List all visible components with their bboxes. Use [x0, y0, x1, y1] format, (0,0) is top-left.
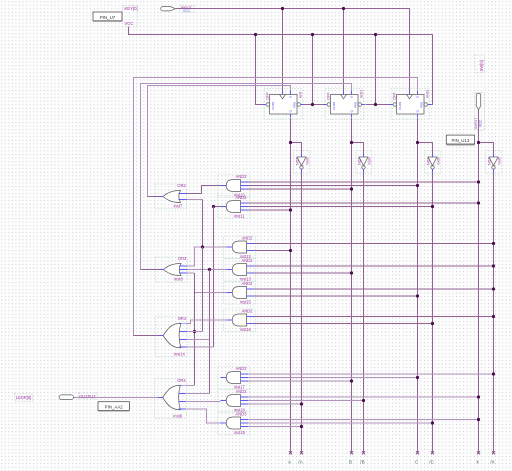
svg-text:X: X [476, 460, 479, 465]
wire AND2 inst16 input 2 to node /C [254, 323, 433, 325]
wire AND2 inst12 input 2 to node A [254, 250, 291, 252]
wire AND2 inst16 input 1 to node /X [254, 316, 494, 318]
wire AND3 inst19 input 2 to node /C [248, 422, 432, 424]
wire OR4 inst9 input 4 jog to AND3 inst19 output [187, 409, 221, 423]
OR3 gate inst8 [163, 264, 181, 276]
selection box around OUTPUT label [78, 393, 97, 399]
svg-text:/X: /X [490, 460, 494, 465]
wire OR4 inst9 input 2 from vertical V3 [187, 393, 210, 395]
svg-text:PRN: PRN [419, 102, 423, 108]
wire OR4 inst9 output to output pin LEDR[0] [74, 397, 159, 399]
wire vertical V1 minterm feed up to OR3 input 3 [186, 272, 194, 274]
wire branch to NOT inst5 [418, 143, 433, 154]
wire /B column from NOT inst4 [363, 172, 365, 452]
junction AND3 inst10 in3 on B [350, 187, 353, 190]
wire OR4 inst9 input 1 from vertical V1 [187, 385, 195, 387]
svg-text:inst9: inst9 [173, 413, 182, 418]
svg-text:inst19: inst19 [234, 430, 246, 435]
svg-text:VCC: VCC [124, 21, 133, 26]
wire AND3 inst10 input 3 to node B [248, 188, 351, 190]
svg-text:CLRN: CLRN [271, 102, 275, 110]
svg-text:PRN: PRN [292, 102, 296, 108]
junction AND2 inst16 in1 on /X [492, 315, 495, 318]
inverter NOT gate inst5 [428, 157, 437, 166]
wire AND3 inst17 input 2 to node C [248, 377, 417, 379]
junction AND2 inst13 in1 on /X [492, 264, 495, 267]
svg-text:DFF: DFF [392, 92, 396, 100]
input pin KEY[0] symbol tag [161, 7, 176, 11]
junction AND2 inst13 output branch to V3 [208, 268, 211, 271]
svg-text:NOT: NOT [358, 157, 362, 165]
AND2 gate inst13 [232, 264, 246, 276]
wire AND2 inst13 input 2 to node B [254, 272, 352, 274]
wire OR4 inst14 input 4 to vertical V4 [187, 346, 214, 348]
wire KEY[0] net from pin to preset/clear rail [129, 27, 433, 105]
svg-text:DFF: DFF [326, 92, 330, 100]
wire AND3 inst11 input 3 to node A [248, 209, 290, 211]
junction AND3 inst19 in1 on X [477, 418, 480, 421]
wire KEY[0] branch to node between inst1 and inst2 [375, 35, 377, 105]
svg-text:PIN_AA2: PIN_AA2 [105, 405, 124, 410]
wire AND3 inst10 output to OR2 input 1 [186, 186, 220, 194]
junction AND3 inst18 in1 on X [477, 395, 480, 398]
wire OR2 input 2 jog to vertical V2 [186, 199, 202, 201]
wire AND2 inst13 input 1 to node /X [254, 265, 494, 267]
pin assignment box PIN_U7 [93, 12, 122, 21]
junction on rail between inst1 and inst2 [374, 103, 377, 106]
inverter NOT gate inst3 [297, 157, 306, 166]
wire AND3 inst11 output to vertical V4 [214, 206, 221, 208]
junction V1 at OR4 inst14 input 2 [193, 330, 196, 333]
D flip-flop DFF inst1 [324, 89, 365, 120]
OR2 gate inst7 [163, 191, 181, 203]
junction node X to inverter [477, 141, 480, 144]
AND3 gate inst18 [226, 395, 240, 407]
svg-text:inst16: inst16 [240, 327, 252, 332]
svg-text:PIN_U7: PIN_U7 [100, 15, 116, 20]
junction AND3 inst11 in3 on A [289, 208, 292, 211]
dangling wire end marker A [289, 451, 292, 454]
junction AND2 inst16 in2 on /C [431, 322, 434, 325]
wire OR4 inst14 output to feedback vertical [134, 335, 159, 337]
wire clock drop to DFF inst [282, 9, 284, 92]
wire AND3 inst18 input 1 to node X [248, 396, 478, 398]
dangling wire end marker /A [300, 451, 303, 454]
junction node C to inverter [416, 141, 419, 144]
OR4 gate inst9 [163, 385, 181, 410]
junction AND2 inst15 in1 on /X [492, 287, 495, 290]
input pin SW[0] symbol tag [476, 94, 480, 110]
wire AND3 inst10 input 2 to node C [248, 185, 417, 187]
junction AND3 inst17 in3 on B [350, 379, 353, 382]
svg-text:KEY[0]: KEY[0] [124, 6, 137, 11]
svg-text:/B: /B [360, 460, 364, 465]
wire AND2 inst15 input 1 to node /X [254, 288, 494, 290]
junction AND2 inst12 output with vertical V2 [201, 245, 204, 248]
wire AND3 inst11 input 2 to node /C [248, 206, 432, 208]
svg-text:NOT: NOT [488, 157, 492, 165]
wire preset-clear rail between inst1 and inst2 [365, 104, 389, 106]
svg-text:CLRN: CLRN [398, 102, 402, 110]
junction node B to inverter [350, 141, 353, 144]
junction AND3 inst18 in3 on /A [300, 402, 303, 405]
AND3 gate inst19 [226, 417, 240, 429]
wire D feedback net to DFF inst1 (from OR3) [141, 84, 352, 270]
wire vertical V2 end corner [202, 247, 204, 332]
wire Q output column B from DFF inst1 [351, 118, 353, 453]
AND3 gate inst17 [226, 372, 240, 384]
wire vertical V3 minterm feed [209, 270, 211, 394]
wire AND3 inst17 input 1 to node /X [248, 373, 493, 375]
wire KEY[0] branch to node between inst and inst1 [312, 35, 314, 105]
junction AND3 inst11 in1 on X [477, 201, 480, 204]
svg-text:inst8: inst8 [174, 277, 183, 282]
wire branch to NOT inst4 [352, 143, 364, 154]
AND3 gate inst10 [226, 180, 240, 192]
output pin LEDR[0] symbol tag [59, 395, 73, 400]
wire OR4 inst14 input 2 link to V2 [195, 331, 203, 333]
svg-text:PRN: PRN [353, 102, 357, 108]
dangling wire end marker /X [492, 451, 495, 454]
svg-text:inst4: inst4 [368, 157, 372, 165]
junction AND3 inst10 in2 on C [416, 184, 419, 187]
wire Q output column C from DFF inst2 [417, 118, 419, 453]
junction AND2 inst15 in2 on C [416, 294, 419, 297]
svg-text:LEDR[0]: LEDR[0] [16, 395, 31, 400]
wire /X column from NOT inst6 [493, 172, 495, 452]
wire Q output column A from DFF inst [290, 118, 292, 453]
wire KEY[0] branch to DFF inst CLRN [256, 35, 263, 105]
svg-text:inst5: inst5 [437, 157, 441, 165]
junction AND3 inst11 in2 on /C [431, 205, 434, 208]
junction AND2 inst12 in2 on A [289, 249, 292, 252]
svg-text:inst1: inst1 [359, 90, 363, 98]
svg-text:CLRN: CLRN [332, 102, 336, 110]
wire AND3 inst18 input 3 to node /A [248, 403, 301, 405]
wire AND3 inst17 input 3 to node B [248, 380, 351, 382]
junction KEY[0] net branch 1 [254, 33, 257, 36]
junction KEY[0] net branch 3 [374, 33, 377, 36]
junction KEY[0] net branch 2 [311, 33, 314, 36]
svg-text:inst14: inst14 [174, 351, 186, 356]
selection box around SW[0] label [475, 55, 484, 73]
junction AND3 inst19 in3 on /A [300, 425, 303, 428]
svg-text:inst15: inst15 [240, 299, 252, 304]
wire OR4 inst14 input 1 jog to AND2 inst16 output [187, 320, 227, 324]
wire AND3 inst10 input 1 to node X [248, 181, 478, 183]
AND2 gate inst15 [232, 287, 246, 299]
selection box around LEDR[0] label [14, 394, 32, 401]
wire branch to NOT inst3 [291, 143, 302, 154]
wire clock net from KEY pin to flip-flop clocks [175, 9, 409, 92]
dangling wire end marker X [477, 451, 480, 454]
dangling wire end marker C [416, 451, 419, 454]
wire AND3 inst19 input 1 to node X [248, 419, 478, 421]
inverter NOT gate inst4 [359, 157, 368, 166]
wire from SW[0] pin into column X [478, 110, 480, 112]
svg-text:VCC: VCC [479, 119, 483, 127]
AND3 gate inst11 [226, 201, 240, 213]
svg-text:DFF: DFF [265, 92, 269, 100]
AND2 gate inst12 [232, 241, 246, 253]
selection box around INPUT/VCC labels [180, 6, 195, 13]
svg-text:inst11: inst11 [234, 213, 245, 218]
junction AND3 inst19 in2 on /C [431, 421, 434, 424]
wire OR4 inst14 input 2 to junction on V1 [187, 331, 195, 333]
wire preset-clear rail between inst and inst1 [304, 104, 324, 106]
wire branch to NOT inst6 [479, 143, 494, 154]
wire AND3 inst18 input 2 to node /B [248, 400, 363, 402]
dangling wire end marker /B [362, 451, 365, 454]
svg-text:inst3: inst3 [306, 157, 310, 165]
dangling wire end marker B [350, 451, 353, 454]
wire AND3 inst19 input 3 to node /A [248, 426, 301, 428]
svg-text:NOT: NOT [296, 157, 300, 165]
wire clock drop to DFF inst1 [343, 9, 345, 92]
junction AND3 inst11 output branch [212, 205, 215, 208]
wire AND2 inst12 output to OR3 input 1 [186, 247, 226, 266]
pin assignment box PIN_AA2 [98, 402, 129, 411]
AND2 gate inst16 [232, 314, 246, 326]
svg-text:PIN_U13: PIN_U13 [451, 138, 469, 143]
wire AND3 inst11 input 1 to node X [248, 202, 478, 204]
wire vertical V4 minterm to OR4 inst14 input 4 [213, 207, 215, 347]
junction AND3 inst10 in1 on X [477, 180, 480, 183]
inverter NOT gate inst6 [489, 157, 498, 166]
svg-text:inst6: inst6 [498, 157, 502, 165]
junction on rail between inst and inst1 [311, 103, 314, 106]
svg-text:/C: /C [429, 460, 434, 465]
wire D feedback net to DFF inst (from OR2) [148, 86, 291, 197]
OR4 gate inst14 [163, 323, 181, 348]
junction node A to inverter [289, 141, 292, 144]
pin assignment box PIN_U13 [446, 135, 474, 144]
junction AND3 inst17 in2 on C [416, 376, 419, 379]
wire AND2 inst13 output to OR3 input 2 [186, 269, 226, 271]
svg-text:B: B [349, 460, 352, 465]
junction AND2 inst13 in2 on B [350, 271, 353, 274]
junction on clock net at first drop [281, 7, 284, 10]
wire OR4 inst14 input 3 to junction on V3 [187, 338, 210, 340]
wire SW[0] input column X [478, 108, 480, 452]
selection box around KEY[0] [123, 6, 138, 27]
junction AND3 inst17 in1 on /X [492, 372, 495, 375]
svg-text:inst7: inst7 [174, 204, 183, 209]
junction on clock net at second drop [342, 7, 345, 10]
junction AND2 inst12 in1 on /X [492, 242, 495, 245]
dangling wire end marker /C [431, 451, 434, 454]
wire vertical V2 from OR2 input 2 [202, 200, 204, 248]
wire AND2 inst15 output joining vertical V1 [195, 292, 227, 294]
wire OR2 output to feedback vertical [148, 196, 159, 198]
svg-text:NOT: NOT [427, 157, 431, 165]
svg-text:inst2: inst2 [425, 90, 429, 98]
junction AND3 inst18 in2 on /B [362, 399, 365, 402]
wire OR4 inst9 input 3 from AND3 inst18 output [187, 400, 221, 402]
wire AND2 inst15 input 2 to node C [254, 295, 418, 297]
svg-text:inst: inst [298, 91, 302, 98]
wire AND2 inst12 input 1 to node /X [254, 243, 494, 245]
D flip-flop DFF inst2 [390, 89, 431, 120]
wire /C column from NOT inst5 [432, 172, 434, 452]
wire /A column from NOT inst3 [301, 172, 303, 452]
svg-text:VCC: VCC [183, 9, 191, 13]
D flip-flop DFF inst [263, 89, 304, 120]
selection box around SW[0] INPUT/VCC labels [475, 93, 484, 131]
wire D feedback net to DFF inst2 (from OR4) [134, 78, 418, 336]
svg-text:SW[0]: SW[0] [479, 60, 484, 71]
wire OR3 output to feedback vertical [141, 269, 159, 271]
svg-text:OUTPUT: OUTPUT [79, 393, 96, 398]
